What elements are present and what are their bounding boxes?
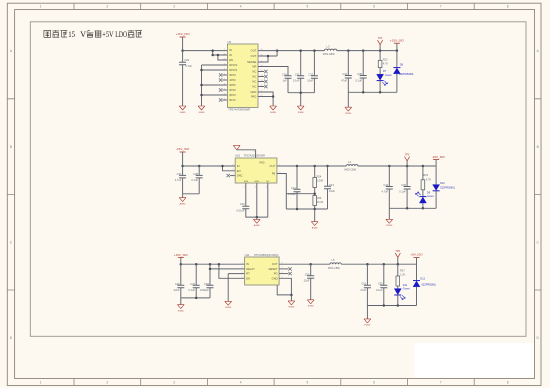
- svg-text:IN: IN: [229, 48, 232, 52]
- svg-text:MSS-CBW: MSS-CBW: [328, 267, 340, 270]
- svg-text:40.2K: 40.2K: [317, 200, 324, 204]
- svg-text:15: 15: [68, 29, 75, 39]
- wire R27 to D11: [397, 286, 399, 289]
- svg-text:NC: NC: [252, 70, 256, 74]
- wire flag to rail out3: [416, 258, 418, 265]
- svg-text:TPS7A6550QKVURQ1: TPS7A6550QKVURQ1: [254, 254, 279, 257]
- svg-text:C37: C37: [177, 172, 182, 176]
- svg-text:22uF: 22uF: [304, 279, 310, 283]
- svg-text:8: 8: [507, 380, 509, 384]
- svg-text:PGND: PGND: [364, 325, 371, 327]
- wire C32 to bottom rail: [313, 78, 315, 92]
- wire flag to rail out2: [435, 160, 437, 166]
- svg-text:6P4V2: 6P4V2: [229, 63, 238, 67]
- wire OUT2 riser: [276, 51, 278, 56]
- capacitor C44 plates: [386, 187, 393, 190]
- led D7 body: [377, 74, 384, 80]
- capacitor C47 plates: [193, 285, 200, 288]
- svg-text:3: 3: [173, 5, 175, 9]
- no-connect x on U9 right pin: [264, 75, 267, 78]
- junction rail EN riser: [221, 165, 224, 168]
- svg-text:20: 20: [223, 53, 225, 55]
- junction rail R25: [422, 165, 425, 168]
- svg-text:C40: C40: [240, 202, 245, 206]
- wire to sgnd c3 left: [180, 298, 182, 305]
- no-connect x on U9 right pin: [264, 70, 267, 73]
- wire U9 nc stub y80: [222, 79, 227, 81]
- no-connect x PG: [288, 272, 291, 275]
- wire bottom rail circuit2 left: [286, 208, 327, 210]
- junction PAD to GND wire: [272, 95, 275, 98]
- svg-text:47uF: 47uF: [360, 288, 366, 292]
- junction U11 gnd pad: [290, 294, 293, 297]
- resistor R24 body: [313, 178, 317, 188]
- junction rail C35: [362, 49, 365, 52]
- svg-text:2: 2: [241, 267, 242, 269]
- wire C44 down: [388, 189, 390, 208]
- resistor R26 body: [313, 196, 317, 206]
- svg-text:-15V_ISO: -15V_ISO: [176, 147, 190, 151]
- ground sgnd under C29: [179, 106, 186, 110]
- op-amp U11 regulator TPS7A6550 body: [245, 257, 280, 285]
- junction bottom rail D11: [397, 304, 400, 307]
- wire rail to D12: [416, 264, 418, 280]
- junction SENSE on OUT2 wire: [267, 55, 270, 58]
- svg-text:U9: U9: [228, 40, 232, 44]
- wire RESET stub: [279, 268, 288, 270]
- svg-text:C50: C50: [305, 272, 310, 276]
- svg-text:0.1uF: 0.1uF: [191, 178, 198, 182]
- svg-text:TPS7A3301RGWR: TPS7A3301RGWR: [244, 155, 266, 158]
- capacitor C35 plates: [360, 76, 367, 79]
- svg-text:4.7uF: 4.7uF: [381, 189, 388, 193]
- wire bottom rail to pgnd c2: [388, 208, 390, 219]
- svg-text:R25: R25: [423, 173, 428, 177]
- svg-text:23: 23: [223, 58, 225, 60]
- wire bottom rail caps C30-C32: [288, 92, 314, 94]
- U9 pin numbers: [223, 48, 262, 102]
- wire D7 to bottom rail: [379, 81, 381, 93]
- svg-text:C31: C31: [295, 72, 300, 76]
- svg-text:SZ2PR5080L: SZ2PR5080L: [399, 73, 415, 76]
- inductor L3 coil: [325, 49, 337, 51]
- svg-text:LDO: LDO: [115, 29, 127, 39]
- wire join C37 C38 bottoms: [183, 193, 200, 195]
- wire U9 nc stub right y71.5: [258, 71, 264, 73]
- svg-text:NC: NC: [252, 80, 256, 84]
- svg-text:0.1uF: 0.1uF: [376, 288, 383, 292]
- svg-text:SZ2PR5080L: SZ2PR5080L: [421, 284, 437, 287]
- svg-text:6: 6: [254, 151, 255, 153]
- wire to agnd circuit2: [182, 194, 184, 198]
- wire C47 down: [195, 288, 197, 298]
- resistor R23 body: [378, 60, 382, 67]
- junction divider mid: [313, 192, 316, 195]
- wire EN riser: [219, 264, 245, 278]
- test point TP4: [378, 40, 383, 44]
- power flag +15V_ISO: [180, 36, 186, 38]
- wire U9 nc stub right y76.5: [258, 76, 264, 78]
- wire U10 OUT rail: [277, 165, 346, 167]
- wire -15V rail to U10 IN: [183, 165, 236, 167]
- svg-text:9: 9: [224, 88, 225, 90]
- wire U11 PAD to gnd: [277, 285, 291, 295]
- wire select bus vertical: [201, 65, 203, 106]
- wire U9 nc stub right y81.5: [258, 81, 264, 83]
- svg-text:SGND: SGND: [225, 307, 232, 309]
- svg-text:4: 4: [241, 277, 242, 279]
- inductor L5 coil: [330, 263, 341, 264]
- svg-text:47uF: 47uF: [341, 78, 347, 82]
- junction rail C38: [198, 165, 201, 168]
- svg-text:AGND: AGND: [254, 224, 261, 227]
- junction bottom rail C45: [406, 207, 409, 210]
- wire rail to R24: [314, 166, 316, 178]
- svg-text:5: 5: [307, 5, 309, 9]
- svg-text:1: 1: [241, 262, 242, 264]
- wire C46 down: [180, 288, 182, 298]
- svg-text:3: 3: [232, 164, 233, 166]
- svg-text:SGND: SGND: [288, 307, 295, 309]
- wire U10 EN pin: [223, 166, 236, 171]
- junction rail C52: [383, 263, 386, 266]
- ground agnd divider: [311, 222, 318, 226]
- svg-text:4.7K: 4.7K: [383, 62, 389, 66]
- wire U10 DNC stub: [230, 175, 235, 177]
- junction bottom rail C41: [296, 208, 299, 211]
- svg-text:6: 6: [373, 380, 375, 384]
- content boundary rectangle: [30, 22, 526, 337]
- svg-text:TP6: TP6: [396, 250, 401, 253]
- svg-text:TPS7A4700RGWR: TPS7A4700RGWR: [228, 108, 250, 112]
- junction rail C34: [347, 49, 350, 52]
- wire rail to C47: [195, 264, 197, 285]
- junction rail C50: [309, 263, 312, 266]
- svg-text:7: 7: [440, 380, 442, 384]
- junction rail TP4 R23: [379, 49, 382, 52]
- svg-text:0P4V: 0P4V: [229, 88, 236, 92]
- junction rail R24: [313, 165, 316, 168]
- svg-text:4.7uF: 4.7uF: [175, 178, 182, 182]
- wire R23 to D7: [379, 68, 381, 75]
- wire C40 to bottom gnd rail: [246, 209, 268, 217]
- capacitor C30 plates: [285, 76, 292, 79]
- svg-text:B: B: [537, 145, 539, 149]
- wire U9 pin8 0P8V: [202, 84, 228, 86]
- svg-text:0.1uF: 0.1uF: [293, 79, 300, 83]
- wire U11 GND pin down: [279, 278, 291, 301]
- wire rail to C52: [383, 264, 385, 285]
- wire TP6 to rail: [397, 257, 399, 264]
- svg-text:5: 5: [244, 187, 245, 189]
- svg-text:OUT: OUT: [251, 54, 257, 58]
- svg-text:OUT: OUT: [251, 49, 257, 53]
- ground pgnd circuit2 right: [386, 219, 393, 223]
- wire output rail circuit2 right: [358, 165, 436, 167]
- no-connect x on U9 right pin: [264, 85, 267, 88]
- wire C45 down: [406, 189, 408, 208]
- wire flag to rail circuit3: [180, 258, 182, 265]
- white watermark patch bottom right: [415, 343, 535, 378]
- wire input rail to U11 IN: [181, 263, 245, 265]
- svg-text:+15V_ISO: +15V_ISO: [390, 38, 405, 42]
- junction rail C48: [209, 263, 212, 266]
- svg-text:Green: Green: [403, 288, 411, 291]
- ground agnd under C37: [179, 198, 186, 202]
- svg-text:EN: EN: [229, 58, 233, 62]
- no-connect x on U9 left pin: [219, 88, 222, 91]
- svg-text:DNC: DNC: [237, 174, 243, 178]
- ground pgnd circuit3 right: [364, 319, 371, 323]
- svg-text:OUT: OUT: [270, 164, 276, 168]
- wire rail to C38: [198, 166, 200, 175]
- svg-text:10uF: 10uF: [329, 189, 335, 193]
- svg-text:Green: Green: [427, 195, 435, 198]
- svg-text:SGND: SGND: [270, 112, 277, 114]
- wire C30 to bottom rail: [287, 78, 289, 92]
- wire join cap bottoms circuit3: [181, 297, 210, 299]
- junction pin2 corner: [211, 54, 214, 57]
- wire U9 pin3 EN: [218, 55, 228, 60]
- diode D8 body: [393, 68, 400, 74]
- ground sgnd under select bus: [198, 106, 205, 110]
- junction OUT2 on rail: [276, 49, 279, 52]
- svg-text:6: 6: [373, 5, 375, 9]
- wire FB tap to divider mid: [286, 193, 314, 195]
- wire flag to rail out1: [396, 43, 398, 50]
- wire rail to C44: [388, 166, 390, 187]
- svg-text:U11: U11: [245, 253, 250, 257]
- svg-text:IN: IN: [237, 164, 240, 168]
- wire rail to C41: [296, 166, 298, 189]
- capacitor C50 plates: [307, 276, 314, 279]
- power flag +15V_ISO in c3: [178, 257, 184, 259]
- svg-text:D11: D11: [403, 284, 408, 287]
- wire D8 to bottom rail: [396, 74, 398, 93]
- junction bottom rail C52: [383, 304, 386, 307]
- svg-text:EN: EN: [237, 169, 241, 173]
- svg-text:SNS: SNS: [244, 181, 249, 183]
- junction bus pin8: [200, 84, 203, 87]
- wire U9 GND pin to ground: [258, 92, 273, 106]
- power flag -15V_ISO in: [180, 151, 186, 153]
- svg-text:6P4V1: 6P4V1: [229, 68, 238, 72]
- svg-text:MSS-CBW: MSS-CBW: [344, 169, 356, 172]
- no-connect x on U9 left pin: [219, 78, 222, 81]
- wire C48 down: [209, 288, 211, 298]
- svg-text:8: 8: [224, 83, 225, 85]
- svg-text:0.1uF: 0.1uF: [399, 189, 406, 193]
- capacitor C52 plates: [380, 285, 387, 288]
- wire rail to C32: [313, 51, 315, 76]
- svg-text:C44: C44: [383, 183, 388, 187]
- svg-text:C35: C35: [357, 72, 362, 76]
- wire C51 down: [366, 288, 368, 306]
- wire rail to C46: [180, 264, 182, 285]
- wire U9 pin5 6P4V1: [202, 69, 228, 71]
- wire rail to R27: [397, 264, 399, 276]
- wire rail to C35: [362, 51, 364, 76]
- svg-text:SGND: SGND: [308, 306, 315, 308]
- capacitor C34 plates: [345, 76, 352, 79]
- no-connect x on U9 left pin: [219, 73, 222, 76]
- wire U9 OUT2: [258, 55, 277, 57]
- junction bus pin10: [200, 94, 203, 97]
- svg-text:0.01uF: 0.01uF: [237, 208, 245, 212]
- svg-text:1.00K: 1.00K: [317, 178, 324, 182]
- svg-text:0.1uF: 0.1uF: [355, 78, 362, 82]
- wire DELAY to C48 branch: [210, 268, 245, 270]
- svg-text:D12: D12: [420, 277, 425, 280]
- wire rail to C37: [182, 166, 184, 175]
- svg-text:PAD: PAD: [251, 95, 256, 99]
- svg-text:IN: IN: [246, 262, 249, 266]
- svg-text:EN: EN: [246, 276, 250, 280]
- svg-text:C46: C46: [175, 282, 180, 286]
- svg-text:B: B: [10, 145, 12, 149]
- junction rail C37: [181, 165, 184, 168]
- svg-text:GND: GND: [250, 90, 256, 94]
- svg-text:SGND: SGND: [198, 112, 205, 114]
- wire U11 OUT rail left: [279, 263, 330, 265]
- wire R25 to D9: [422, 190, 424, 197]
- op-amp U10 regulator TPS7A3301 body: [235, 158, 277, 183]
- ground sgnd under C50: [307, 300, 314, 304]
- wire flag to rail circuit1: [182, 37, 184, 51]
- wire D11 to bottom rail: [397, 295, 399, 306]
- wire U10 NC pin down: [267, 183, 269, 217]
- svg-text:+5V: +5V: [102, 29, 114, 39]
- power flag +5V_ISO out: [414, 257, 420, 259]
- svg-text:R24: R24: [317, 174, 322, 178]
- svg-text:AGND: AGND: [312, 226, 319, 229]
- svg-text:SGND: SGND: [178, 310, 185, 312]
- svg-text:10uF: 10uF: [307, 79, 313, 83]
- wire rail to R23: [379, 51, 381, 61]
- svg-text:RESET: RESET: [269, 267, 278, 271]
- wire rail to D10: [435, 166, 437, 185]
- svg-text:4: 4: [232, 169, 233, 171]
- svg-text:R27: R27: [400, 268, 405, 272]
- svg-text:D10: D10: [440, 182, 445, 185]
- wire U9 SENSE: [258, 56, 268, 62]
- svg-text:V: V: [80, 29, 87, 39]
- wire rail to D8: [396, 51, 398, 68]
- wire TP5 to rail: [406, 161, 408, 166]
- svg-text:Green: Green: [385, 74, 393, 77]
- wire C37 down: [182, 178, 184, 194]
- title text: isolated 15V and +5V LDO circuits: [44, 30, 51, 37]
- wire bottom rail to ground: [300, 93, 302, 106]
- svg-text:IN: IN: [229, 53, 232, 57]
- svg-text:R26: R26: [317, 196, 322, 200]
- wire C50 down: [310, 278, 312, 300]
- svg-text:DELAY: DELAY: [246, 267, 255, 271]
- wire bottom rail circuit3 right: [367, 305, 416, 307]
- svg-text:GND: GND: [254, 181, 259, 183]
- no-connect x on U9 right pin: [264, 80, 267, 83]
- wire U9 pin2 IN: [213, 51, 228, 55]
- led D11 body: [394, 289, 401, 295]
- svg-text:NC: NC: [266, 181, 270, 183]
- junction rail EN riser c3: [218, 263, 221, 266]
- wire C38 down: [198, 178, 200, 194]
- wire C29 to ground: [182, 65, 184, 106]
- no-connect x on U9 left pin: [219, 98, 222, 101]
- wire D9 to bottom rail: [422, 203, 424, 208]
- ground sgnd under C46: [177, 305, 184, 309]
- power flag +15V_ISO out: [394, 42, 400, 44]
- svg-text:R23: R23: [383, 58, 388, 62]
- svg-text:NC: NC: [252, 75, 256, 79]
- capacitor C41 plates: [294, 189, 301, 192]
- junction bus pin5: [200, 69, 203, 72]
- wire C31 to bottom rail: [300, 78, 302, 92]
- svg-text:11: 11: [224, 98, 226, 100]
- junction rail pin2: [211, 49, 214, 52]
- ground sgnd U9 GND pin: [270, 106, 277, 110]
- svg-text:7: 7: [224, 78, 225, 80]
- wire flag to rail circuit2: [182, 152, 184, 166]
- svg-text:FB: FB: [272, 172, 276, 176]
- ground agnd under U10: [253, 219, 260, 223]
- svg-text:0.01uF: 0.01uF: [288, 192, 296, 196]
- no-connect x RESET: [288, 267, 291, 270]
- svg-text:+5V_ISO: +5V_ISO: [410, 253, 423, 257]
- svg-text:9: 9: [266, 187, 267, 189]
- wire output rail circuit3 right: [341, 263, 416, 265]
- wire U10 FB down: [277, 174, 286, 210]
- junction rail D8: [396, 49, 399, 52]
- wire U9 pin10 0P2V: [202, 94, 228, 96]
- svg-text:3P2V: 3P2V: [229, 73, 236, 77]
- svg-text:RT: RT: [246, 272, 250, 276]
- svg-text:SGND: SGND: [298, 112, 305, 114]
- wire rail to C45: [406, 166, 408, 187]
- diode D10 body: [433, 185, 440, 191]
- svg-text:AGND: AGND: [180, 202, 187, 205]
- capacitor C51 plates: [364, 285, 371, 288]
- inductor L4 coil: [346, 165, 358, 166]
- wire U9 OUT rail left part: [258, 50, 325, 52]
- svg-text:2: 2: [106, 5, 108, 9]
- power flag -15V_ISO out: [433, 159, 439, 161]
- svg-text:TP5: TP5: [405, 153, 410, 156]
- wire U10 GND pin down: [256, 183, 258, 217]
- svg-text:+15V_ISO: +15V_ISO: [174, 253, 189, 257]
- svg-text:0P1V: 0P1V: [229, 98, 236, 102]
- svg-text:4.7uF: 4.7uF: [185, 64, 192, 68]
- junction rail C32: [313, 49, 316, 52]
- svg-text:C32: C32: [308, 72, 313, 76]
- wire C41 down: [296, 192, 298, 209]
- wire rail to C34: [347, 51, 349, 76]
- junction bottom rail D9: [422, 207, 425, 210]
- svg-text:5: 5: [307, 380, 309, 384]
- wire bottom rail circuit2 right: [389, 207, 436, 209]
- svg-text:PAD: PAD: [260, 161, 265, 164]
- wire D12 to bottom rail: [416, 287, 418, 306]
- svg-text:GND: GND: [272, 276, 278, 280]
- svg-text:0.1uF: 0.1uF: [188, 288, 195, 292]
- svg-text:4.7K: 4.7K: [426, 177, 432, 181]
- svg-text:1: 1: [40, 5, 42, 9]
- wire U9 nc stub y75: [222, 74, 227, 76]
- junction bottom rail D7: [379, 91, 382, 94]
- junction rail TP6 R27: [397, 263, 400, 266]
- wire rail to R25: [422, 166, 424, 180]
- svg-text:8: 8: [255, 187, 256, 189]
